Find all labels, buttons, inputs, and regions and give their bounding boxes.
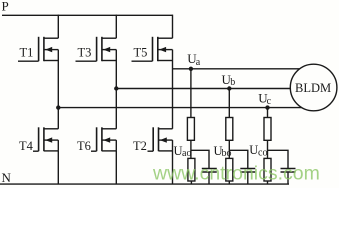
transistor T1 bbox=[18, 37, 58, 61]
resistor R3 upper (phase b divider) bbox=[226, 118, 233, 141]
node junction dot Ub tap bbox=[227, 86, 231, 90]
wire: P positive rail bbox=[2, 14, 173, 16]
wire: R4 to N rail bbox=[228, 181, 230, 184]
svg-text:c: c bbox=[267, 96, 272, 107]
transistor T5 bbox=[132, 37, 173, 61]
divider branch a: wire from Ua tap down bbox=[190, 69, 192, 118]
wire: N negative rail bbox=[0, 183, 289, 185]
capacitor C3 bbox=[281, 168, 296, 170]
svg-text:T6: T6 bbox=[77, 139, 91, 153]
capacitor C2 bbox=[240, 168, 255, 170]
wire: Uco tap to C3 bbox=[268, 150, 289, 168]
wire: Uao tap to C1 bbox=[191, 150, 209, 168]
motor BLDM bbox=[290, 64, 337, 111]
transistor T6 bbox=[91, 127, 116, 151]
svg-text:a: a bbox=[196, 57, 201, 68]
svg-text:BLDM: BLDM bbox=[295, 81, 331, 95]
svg-text:T3: T3 bbox=[78, 46, 92, 60]
svg-text:T2: T2 bbox=[133, 139, 147, 153]
node junction dot phase a bbox=[56, 105, 60, 109]
wire: C2 to N rail bbox=[247, 172, 249, 184]
node junction dot phase b bbox=[114, 86, 118, 90]
wire: Ua phase line to motor bbox=[173, 68, 301, 70]
wire: phase leg a (T1 source to T4 drain) bbox=[57, 61, 59, 129]
wire: R1 to R2 bbox=[190, 140, 192, 158]
svg-text:N: N bbox=[2, 170, 12, 185]
svg-text:www.cntronics.com: www.cntronics.com bbox=[152, 163, 320, 185]
wire: T2 source to N rail bbox=[172, 151, 174, 184]
transistor T3 bbox=[76, 37, 117, 61]
resistor R6 lower (phase c divider) bbox=[264, 158, 271, 181]
wire: phase leg b (T3 source to T6 drain) bbox=[115, 61, 117, 129]
capacitor C1 bbox=[202, 168, 217, 170]
wire: Uc phase line to motor bbox=[58, 107, 302, 109]
wire: Ubo tap to C2 bbox=[229, 150, 248, 168]
svg-text:co: co bbox=[258, 147, 267, 158]
resistor R1 upper (phase a divider) bbox=[187, 118, 194, 141]
svg-text:P: P bbox=[2, 0, 9, 14]
svg-text:T1: T1 bbox=[20, 46, 34, 60]
wire: T4 source to N rail bbox=[57, 151, 59, 184]
wire: R3 to R4 bbox=[228, 140, 230, 158]
resistor R2 lower (phase a divider) bbox=[188, 158, 195, 181]
wire: T5 drain to P rail bbox=[172, 15, 174, 39]
transistor T4 bbox=[33, 127, 58, 151]
svg-text:ao: ao bbox=[182, 148, 191, 159]
wire: T3 drain to P rail bbox=[115, 15, 117, 39]
wire: R5 to R6 bbox=[267, 140, 269, 158]
wire: Ub phase line to motor bbox=[116, 88, 291, 90]
wire: T1 drain to P rail bbox=[57, 15, 59, 39]
node junction dot Uc tap bbox=[265, 105, 269, 109]
svg-text:U: U bbox=[249, 143, 258, 157]
divider branch c: wire from Uc tap down bbox=[267, 108, 269, 118]
wire: C1 to N rail bbox=[208, 172, 210, 184]
wire: T6 source to N rail bbox=[115, 151, 117, 184]
svg-text:b: b bbox=[230, 77, 235, 88]
wire: phase leg c (T5 source to T2 drain) bbox=[172, 61, 174, 129]
wire: R2 to N rail bbox=[190, 181, 192, 184]
svg-text:T4: T4 bbox=[19, 139, 34, 153]
wire: R6 to N rail bbox=[267, 181, 269, 184]
svg-text:T5: T5 bbox=[134, 46, 148, 60]
divider branch b: wire from Ub tap down bbox=[228, 89, 230, 118]
resistor R4 lower (phase b divider) bbox=[226, 158, 233, 181]
node junction dot Ua tap bbox=[189, 67, 193, 71]
transistor T2 bbox=[148, 127, 173, 151]
resistor R5 upper (phase c divider) bbox=[264, 118, 271, 141]
wire: C3 to N rail bbox=[287, 172, 289, 184]
